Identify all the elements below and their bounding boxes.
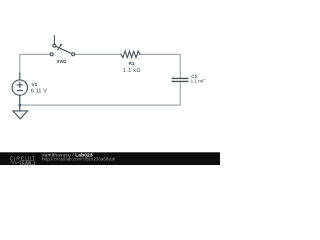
svg-text:http://circuitlab.com/c/byn236: http://circuitlab.com/c/byn236a68yuk [42, 157, 116, 162]
svg-text:R1: R1 [129, 61, 135, 66]
svg-text:V1: V1 [32, 82, 38, 87]
svg-text:6.11 V: 6.11 V [31, 89, 47, 95]
svg-text:SW2: SW2 [57, 59, 67, 64]
svg-text:LAB: LAB [22, 161, 31, 165]
svg-text:1.1 mF: 1.1 mF [191, 79, 205, 84]
svg-text:1.1 kΩ: 1.1 kΩ [123, 68, 141, 74]
